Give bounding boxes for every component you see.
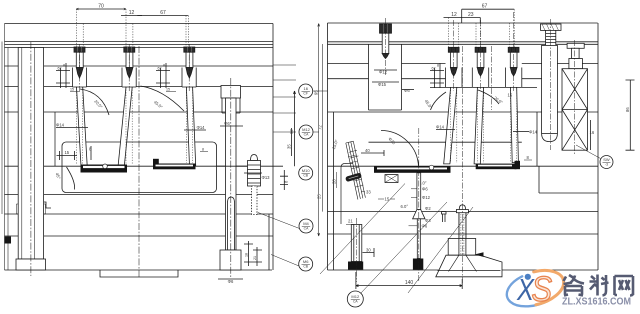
hatched block [385,175,398,183]
plate stack right view [328,23,599,270]
svg-text:Φ14: Φ14 [56,122,65,127]
small pin left of bell [442,212,447,223]
svg-text:28: 28 [332,179,337,184]
bell support [436,205,502,277]
svg-text:8: 8 [202,148,204,152]
balloon 4 [299,219,313,233]
dim 12 [121,15,142,17]
sprue column [541,24,562,142]
dim 15 lower [57,151,78,160]
small dim 15 near pin1 foot [70,91,80,93]
svg-text:Φ14: Φ14 [529,129,538,134]
svg-text:CB: CB [303,265,308,269]
flanged stem component [567,43,584,68]
svg-text:ZL.XS1616.COM: ZL.XS1616.COM [562,295,631,307]
inner walls [44,112,55,236]
svg-text:15: 15 [166,88,170,92]
svg-text:M4: M4 [303,221,309,226]
molded part bar 1 [81,165,128,173]
svg-text:62: 62 [432,67,436,71]
dim phi12 bolt [374,69,397,71]
balloon 16 [299,84,313,98]
screw B [472,47,488,164]
bottom tab [100,270,178,277]
svg-text:23: 23 [468,12,474,18]
vertical dim between views tall [318,24,320,237]
svg-text:8: 8 [163,64,165,68]
svg-text:Φ6: Φ6 [404,88,410,93]
svg-text:Φ12: Φ12 [379,70,388,75]
svg-text:-3: -3 [605,163,608,167]
pin 3 [182,47,196,166]
svg-text:67: 67 [160,10,166,16]
arc 20 deg right view [478,90,499,104]
dim phi6 column [220,125,243,127]
molded part bar 2 [153,164,196,170]
svg-text:Φ14: Φ14 [436,124,445,129]
dim phi14 pin3 [184,129,206,131]
svg-text:62: 62 [289,129,294,134]
dim 70 [76,8,126,10]
central ejector pin [413,173,425,259]
pin 1 (slanted ejector, hex screw head) [73,47,88,166]
screw C [505,47,521,162]
dim phi6 column foot [218,278,243,280]
notch left block [40,202,51,208]
small dims left of pin1 [56,63,70,88]
small dims left of pin3 [156,63,170,88]
svg-text:30: 30 [366,247,371,252]
svg-text:Φ15: Φ15 [378,82,387,87]
pillar centerline [30,42,32,276]
svg-text:62: 62 [58,67,62,71]
balloon right [600,156,613,169]
dim phi14 screwC [513,131,529,133]
dim 40 [361,150,384,156]
svg-text:70: 70 [98,4,104,10]
svg-text:16: 16 [303,86,308,91]
leader diagonals [320,145,601,294]
big quarter arc [381,131,419,168]
svg-text:M6: M6 [303,259,309,264]
svg-text:M10: M10 [302,168,311,173]
svg-text:8: 8 [63,64,65,68]
molded part bar B right view [476,164,517,170]
bolt pocket walls [369,44,402,110]
svg-text:62: 62 [158,67,162,71]
svg-text:8: 8 [437,64,439,68]
angle arc 20deg pin1 [80,89,109,115]
step dim near bar B [524,159,532,161]
angled lifter [346,141,366,199]
svg-text:Φ14: Φ14 [197,125,206,130]
svg-text:M12: M12 [351,294,360,299]
mold centerline [138,46,140,277]
dim 8 lower [90,146,92,160]
svg-text:12: 12 [129,10,135,16]
svg-text:67: 67 [482,4,488,10]
cavity pocket rounded rect [62,142,217,193]
dim 67 left [137,15,188,17]
svg-text:Φ2: Φ2 [425,206,431,211]
dim 140 bottom [356,272,462,289]
svg-text:86: 86 [625,107,630,112]
svg-text:15: 15 [508,93,513,98]
spring puller component [248,155,261,215]
svg-text:25: 25 [316,194,321,199]
svg-text:S: S [532,269,553,308]
svg-text:40: 40 [365,148,370,153]
pin 2 [118,47,136,166]
angle arc 45deg pin2 [141,86,185,111]
vertical dim between views 2 [322,44,324,212]
dim phi14 pin1 [56,127,88,129]
small dims left of screw A [430,63,444,88]
dims right of column bottom [244,241,262,266]
svg-text:SW: SW [603,157,610,162]
dim 8 spring puller [280,170,288,190]
svg-text:Φ13: Φ13 [262,175,271,180]
ejector plate screw [351,225,362,262]
svg-text:Φ6: Φ6 [228,279,234,284]
molded part bar A right view [374,166,451,172]
svg-text:6.0°: 6.0° [401,204,409,209]
svg-text:35: 35 [287,144,292,149]
dim 62 tall [294,91,296,166]
svg-text:CA: CA [304,133,309,137]
svg-text:16: 16 [590,130,595,135]
svg-text:140: 140 [405,280,414,286]
dotted hole lines under pins [77,87,193,164]
angle arc lower left [67,167,75,190]
spring block with X bracing [562,69,588,151]
balloon bottom [347,291,363,307]
svg-text:Φ12: Φ12 [422,195,431,200]
black arrow marker [475,252,484,257]
svg-text:18: 18 [245,253,249,257]
dim 30 screw [363,248,375,257]
arc 45 deg right view [431,92,447,110]
dim phi15 bolt [372,81,399,83]
bolt B1 top left [380,24,392,59]
plate stack left view [5,24,284,271]
svg-text:Φ6: Φ6 [224,121,230,126]
svg-text:33: 33 [366,190,371,195]
support column (return pin) [220,86,241,271]
svg-text:72: 72 [318,125,323,130]
balloon 3 [299,166,313,180]
svg-text:15: 15 [64,150,69,155]
leader lines to balloons [273,65,296,132]
dim 35 [291,128,293,156]
svg-text:Φ6: Φ6 [422,186,428,191]
svg-text:CF: CF [303,92,308,96]
black square left edge [5,237,12,244]
pin 1 extension dotted [76,9,83,47]
svg-text:21: 21 [348,219,353,224]
screw A [444,47,462,164]
svg-text:21: 21 [253,256,257,260]
svg-text:12: 12 [451,12,457,18]
svg-text:M12: M12 [302,127,311,132]
balloon 5 [299,257,313,271]
left edge verticals [2,24,8,271]
svg-text:95: 95 [314,90,319,95]
dim phi6 small [402,89,414,91]
right view edge verticals [328,23,599,270]
top dims right view [462,8,515,10]
dim 16 spring [590,120,592,150]
dim phi14 screwA [436,129,455,131]
right edge verticals [269,24,273,271]
dotted hole lines under screws [451,87,517,163]
svg-text:CA: CA [353,300,358,304]
dim 86 right [626,80,635,150]
balloon 2 [299,125,313,139]
svg-text:CA: CA [304,227,309,231]
guide pillar [16,48,46,271]
dim phi13 spring [244,172,262,174]
svg-text:CB: CB [303,174,308,178]
svg-text:15: 15 [70,88,74,92]
